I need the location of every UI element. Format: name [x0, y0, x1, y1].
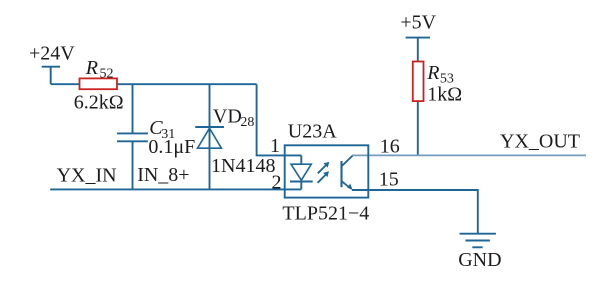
optocoupler LED anode lead — [300, 155, 302, 164]
svg-text:U23A: U23A — [288, 121, 337, 143]
optocoupler light arrow upper — [318, 162, 330, 174]
svg-text:1: 1 — [270, 135, 280, 157]
optocoupler U23A box — [285, 145, 369, 197]
capacitor C31 bottom plate — [117, 140, 148, 142]
wire pin 16 output rail to YX_OUT — [352, 154, 586, 156]
power +5V terminal bar — [406, 37, 430, 39]
wire pin 1 drop and stub — [257, 84, 302, 155]
svg-text:0.1μF: 0.1μF — [148, 136, 195, 158]
svg-text:TLP521−4: TLP521−4 — [282, 203, 369, 225]
wire top rail — [51, 83, 257, 85]
svg-text:28: 28 — [240, 115, 254, 130]
svg-text:1kΩ: 1kΩ — [427, 84, 462, 106]
ground — [460, 233, 496, 235]
svg-text:1N4148: 1N4148 — [211, 155, 275, 177]
optocoupler LED cathode lead — [300, 182, 302, 190]
svg-text:+24V: +24V — [29, 42, 75, 64]
wire +5V drop to resistor R53 — [417, 38, 419, 63]
diode VD28 triangle — [198, 128, 222, 148]
svg-text:R: R — [426, 62, 439, 84]
optocoupler LED cathode bar — [290, 181, 313, 183]
svg-text:IN_8+: IN_8+ — [137, 164, 189, 186]
capacitor C31 top plate — [117, 132, 148, 134]
wire diode branch vertical — [209, 84, 211, 189]
optocoupler phototransistor base bar — [340, 161, 342, 187]
resistor R52 body — [80, 78, 118, 89]
svg-text:GND: GND — [458, 249, 501, 271]
resistor R53 body — [413, 62, 424, 102]
wire +24V drop to top rail — [50, 67, 52, 85]
wire resistor R53 to output rail — [417, 100, 419, 155]
optocoupler light arrow lower — [318, 171, 329, 183]
svg-text:YX_OUT: YX_OUT — [500, 131, 580, 153]
svg-text:15: 15 — [379, 169, 399, 191]
svg-text:+5V: +5V — [400, 12, 436, 34]
wire bottom rail YX_IN to pin 2 — [50, 188, 301, 190]
wire pin 15 run and drop to ground — [352, 190, 478, 234]
svg-text:VD: VD — [213, 106, 242, 128]
svg-text:52: 52 — [100, 67, 114, 82]
svg-text:R: R — [85, 57, 98, 79]
wire capacitor branch upper — [132, 84, 134, 133]
wire capacitor branch lower — [132, 141, 134, 189]
svg-text:16: 16 — [380, 136, 400, 158]
optocoupler phototransistor collector — [342, 156, 353, 166]
diode VD28 cathode bar — [195, 126, 224, 128]
svg-text:YX_IN: YX_IN — [57, 164, 117, 186]
optocoupler LED triangle — [291, 164, 311, 180]
svg-text:6.2kΩ: 6.2kΩ — [74, 91, 124, 113]
optocoupler phototransistor emitter with arrow — [342, 181, 353, 190]
power +24V terminal bar — [42, 66, 60, 68]
svg-text:2: 2 — [272, 171, 282, 193]
